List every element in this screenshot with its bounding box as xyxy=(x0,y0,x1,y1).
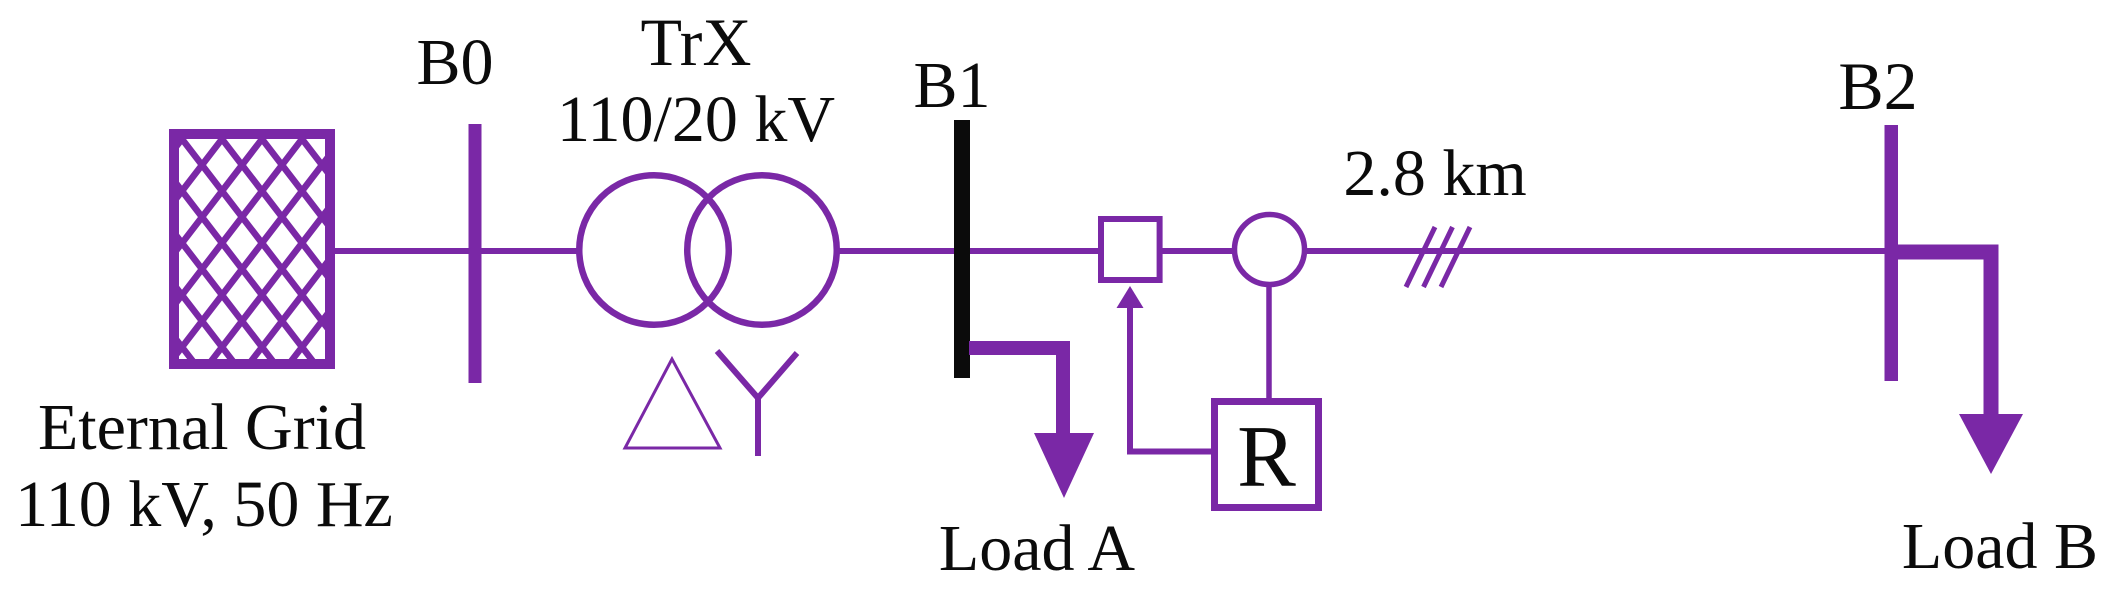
svg-text:B1: B1 xyxy=(913,49,990,122)
svg-text:110/20 kV: 110/20 kV xyxy=(557,83,835,156)
svg-text:Load A: Load A xyxy=(939,512,1135,585)
svg-text:Load B: Load B xyxy=(1902,510,2098,583)
svg-text:B2: B2 xyxy=(1838,48,1917,124)
svg-text:110 kV, 50 Hz: 110 kV, 50 Hz xyxy=(15,468,393,541)
svg-text:TrX: TrX xyxy=(641,4,752,80)
svg-text:R: R xyxy=(1237,409,1296,506)
svg-text:B0: B0 xyxy=(416,26,493,99)
svg-text:2.8 km: 2.8 km xyxy=(1343,137,1526,210)
svg-text:Eternal Grid: Eternal Grid xyxy=(38,391,366,464)
